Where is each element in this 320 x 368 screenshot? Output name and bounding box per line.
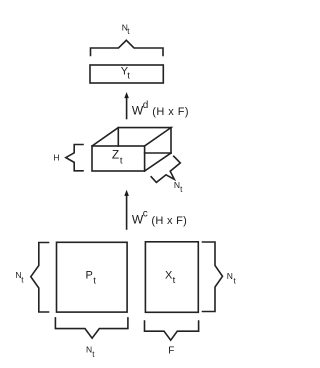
- svg-text:(H x F): (H x F): [151, 215, 187, 227]
- box Z_t top rim: [92, 128, 171, 146]
- svg-text:t: t: [180, 185, 183, 194]
- box Z_t back-right vertical: [170, 128, 172, 153]
- rectangle P_t: [57, 242, 128, 312]
- svg-text:d: d: [143, 100, 149, 111]
- svg-text:P: P: [86, 269, 93, 281]
- svg-text:H: H: [53, 152, 59, 162]
- rotated brace N_t at box lower-right: [151, 156, 180, 182]
- rectangle Y_t: [90, 65, 163, 83]
- svg-text:t: t: [92, 350, 95, 359]
- svg-text:Z: Z: [112, 148, 119, 162]
- svg-text:F: F: [168, 346, 174, 357]
- arrowhead W^c: [124, 190, 129, 196]
- box Z_t inner back-left vertical: [117, 128, 119, 146]
- arrow W^c: [126, 195, 128, 229]
- svg-text:t: t: [127, 71, 130, 82]
- left brace H: [66, 145, 83, 171]
- arrow W^d: [126, 97, 128, 119]
- svg-text:t: t: [234, 276, 237, 285]
- right brace N_t (bottom group): [203, 242, 223, 312]
- top brace over Y_t (N_t overbrace): [91, 40, 164, 55]
- bottom brace F under X_t: [145, 321, 199, 340]
- svg-text:t: t: [120, 155, 123, 166]
- rectangle X_t: [145, 242, 198, 312]
- box Z_t front face: [92, 146, 145, 171]
- box Z_t inner bottom edge: [145, 152, 171, 154]
- svg-text:t: t: [93, 275, 96, 286]
- svg-text:(H x F): (H x F): [152, 106, 189, 118]
- svg-text:t: t: [173, 275, 176, 286]
- svg-text:c: c: [143, 208, 148, 219]
- svg-text:t: t: [21, 275, 24, 284]
- svg-text:t: t: [127, 27, 130, 36]
- arrowhead W^d: [124, 92, 129, 98]
- left brace N_t (bottom group): [31, 243, 49, 313]
- svg-text:N: N: [227, 271, 233, 281]
- box Z_t bottom-right diagonal: [145, 153, 171, 171]
- bottom brace N_t under P_t: [55, 318, 128, 338]
